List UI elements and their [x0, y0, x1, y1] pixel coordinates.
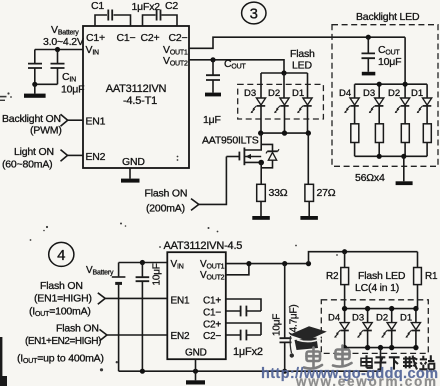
node Flash ON (200mA) [145, 188, 199, 215]
svg-text:Light ON: Light ON [14, 146, 54, 158]
capacitor CIN (two in parallel) [28, 50, 84, 96]
watermark graduation cap logo [290, 326, 327, 357]
capacitor C1 [91, 0, 131, 26]
wire VIN to U1 [35, 49, 83, 51]
circled number 4 [49, 242, 74, 266]
LED D4 (circuit 4) [328, 313, 349, 338]
resistor 560x4 (D4) [351, 124, 359, 143]
watermark bug glyphs [304, 346, 352, 369]
svg-text:(60~80mA): (60~80mA) [2, 159, 52, 171]
wire VOUT2 [189, 60, 308, 73]
svg-text:Backlight ON: Backlight ON [2, 113, 61, 125]
LED D2 [268, 88, 289, 113]
wire cathode bus [261, 132, 309, 134]
svg-text:Backlight LED: Backlight LED [356, 11, 420, 23]
wire backlight cathode bus [355, 143, 428, 157]
wire VOUT1 to backlight box [189, 37, 405, 48]
svg-text:4: 4 [57, 247, 65, 264]
wire D1 column to 27 ohm [307, 133, 309, 184]
svg-text:EN1: EN1 [171, 296, 190, 307]
svg-text:D3: D3 [244, 88, 256, 99]
node Flash ON EN2 (circuit 4) [17, 323, 107, 366]
svg-text:Flash LED: Flash LED [358, 270, 406, 282]
svg-text:3: 3 [250, 5, 258, 22]
ground under 33 ohm [252, 201, 269, 219]
wire VIN (circuit 4) [119, 262, 168, 264]
diode zener (internal) [261, 144, 279, 167]
scan specks [0, 92, 338, 371]
battery B1 [112, 263, 126, 372]
svg-text:(4.7μF): (4.7μF) [289, 304, 300, 335]
svg-text:Flash ON: Flash ON [145, 188, 188, 200]
wire cathode return to ground bus [380, 348, 382, 372]
svg-text:C2−: C2− [203, 331, 221, 342]
svg-text:D1: D1 [400, 313, 412, 324]
watermark text 电子下载站 [361, 355, 434, 369]
svg-text:www.eeworm.com: www.eeworm.com [295, 374, 436, 386]
svg-text:(PWM): (PWM) [30, 125, 62, 137]
svg-text:R1: R1 [425, 271, 438, 282]
LED D3 (circuit 4) [352, 313, 372, 338]
resistor 560x4 (D3) [375, 124, 383, 143]
resistor 33 ohm [257, 184, 288, 201]
wire EN2 [68, 154, 84, 156]
svg-text:C2+: C2+ [141, 32, 160, 44]
svg-text:C1−: C1− [117, 32, 136, 44]
svg-text:EN1: EN1 [86, 116, 106, 128]
wire cathode bus (circuit 4) [345, 331, 416, 348]
svg-text:C2+: C2+ [203, 320, 221, 331]
LED D3 [244, 88, 266, 113]
svg-text:C1+: C1+ [203, 296, 221, 307]
ground under CIN [24, 84, 46, 97]
resistor 560x4 (D2) [401, 124, 409, 143]
svg-text:-4.5-T1: -4.5-T1 [123, 95, 157, 107]
node VBattery [43, 24, 84, 48]
ground under 27 ohm [300, 201, 318, 219]
junction node VOUT2/COUT [210, 57, 215, 62]
svg-text:D4: D4 [339, 88, 351, 99]
svg-text:(EN1=HIGH): (EN1=HIGH) [34, 293, 92, 305]
node Backlight ON (PWM) [2, 113, 68, 137]
wires flash LED cathodes to bus [261, 106, 308, 133]
svg-text:LC(4 in 1): LC(4 in 1) [355, 282, 399, 294]
svg-text:D2: D2 [388, 88, 400, 99]
svg-text:D1: D1 [292, 88, 304, 99]
resistor 560x4 (D1) [423, 124, 431, 143]
LED D2 (backlight) [388, 88, 410, 113]
wire top feed to R2/R1 [309, 252, 418, 264]
op-amp U2 AAT3112IVN-4.5 IC box [164, 240, 243, 359]
circled number 3 [242, 2, 266, 24]
ground under backlight box [396, 156, 413, 185]
LED D3 (backlight) [363, 88, 384, 113]
capacitor COUT 10uF (backlight) [362, 37, 402, 72]
resistor R2 [326, 252, 349, 309]
wire EN1 [68, 119, 83, 121]
svg-text:EN2: EN2 [86, 151, 106, 163]
svg-text:EN2: EN2 [171, 331, 190, 342]
transistor Q1 AAT950ILTS (P-MOSFET) [202, 133, 264, 165]
wire backlight anode bus [355, 37, 428, 98]
dashed box flash LED (circuit 4) [321, 300, 428, 354]
junction node COUT2 [366, 35, 371, 40]
svg-text:1μF: 1μF [203, 114, 221, 126]
svg-text:C2: C2 [165, 0, 178, 12]
svg-text:(200mA): (200mA) [146, 203, 185, 215]
label Flash LED LC(4 in 1) [355, 270, 406, 294]
LED D2 (circuit 4) [376, 313, 396, 338]
svg-text:D4: D4 [328, 313, 340, 324]
wire ground bus (circuit 4) [119, 370, 381, 372]
ground under U1 GND [121, 168, 140, 183]
LED D1 [292, 88, 312, 113]
LED D1 (backlight) [411, 88, 432, 113]
svg-text:GND: GND [185, 348, 207, 359]
junction nodes on cathode bus [258, 130, 263, 135]
node Light ON [2, 146, 68, 171]
dashed box flash LED (circuit 3) [238, 84, 324, 119]
svg-text:AAT3112IVN: AAT3112IVN [106, 83, 167, 95]
wires LEDs to resistors [355, 106, 428, 124]
svg-text:10μF: 10μF [61, 84, 84, 96]
svg-text:D2: D2 [268, 88, 280, 99]
svg-text:LED: LED [292, 60, 312, 72]
svg-text:56Ωx4: 56Ωx4 [355, 172, 385, 184]
svg-text:1μFx2: 1μFx2 [233, 346, 263, 358]
wire VOUT bus (circuit 4) [226, 264, 309, 275]
svg-text:C1−: C1− [203, 308, 221, 319]
scan edge artifact left [0, 337, 2, 386]
svg-text:D1: D1 [411, 88, 423, 99]
svg-text:R2: R2 [326, 271, 339, 282]
dashed box backlight LED [332, 25, 438, 167]
svg-text:10μF: 10μF [272, 314, 283, 336]
svg-text:33Ω: 33Ω [269, 187, 288, 199]
capacitor COUT 10uF(4.7uF) (circuit 4) [272, 264, 300, 372]
junction node flash anode feed [281, 70, 286, 75]
svg-text:C1: C1 [91, 0, 104, 12]
svg-text:D2: D2 [376, 313, 388, 324]
op-amp U1 AAT3112IVN-4.5-T1 IC box [83, 26, 189, 168]
label Flash LED [290, 48, 315, 72]
wire Flash ON to Q1 gate [199, 157, 227, 205]
capacitor 10uF input (circuit 4) [136, 263, 163, 372]
svg-text:10μF: 10μF [152, 263, 163, 285]
wire EN1 (circuit 4) [105, 297, 167, 299]
LED D4 (backlight) [339, 88, 359, 113]
svg-text:C2−: C2− [169, 32, 188, 44]
svg-text:(EN1+EN2=HIGH): (EN1+EN2=HIGH) [25, 336, 101, 347]
capacitor C2 [143, 0, 179, 26]
wire anode drops flash LEDs [261, 73, 308, 98]
svg-text:D3: D3 [352, 313, 364, 324]
wire U2 GND stub [195, 359, 197, 371]
svg-text:3.0~4.2V: 3.0~4.2V [43, 36, 84, 48]
junction node on VIN wire [55, 47, 60, 52]
capacitor C2 flying (circuit 4) [226, 323, 261, 340]
svg-text:C1+: C1+ [86, 32, 105, 44]
ground under COUT [205, 93, 221, 97]
node Flash ON EN1 (circuit 4) [29, 280, 105, 318]
svg-text:Flash ON: Flash ON [56, 323, 99, 335]
svg-text:27Ω: 27Ω [317, 187, 336, 199]
resistor R1 [414, 252, 438, 309]
svg-text:AAT950ILTS: AAT950ILTS [202, 135, 259, 147]
svg-text:D3: D3 [363, 88, 375, 99]
wire Q1 source to 33 ohm [260, 163, 262, 185]
svg-text:AAT3112IVN-4.5: AAT3112IVN-4.5 [164, 240, 243, 252]
resistor 27 ohm [305, 184, 336, 201]
ground bar under COUT 10uF [362, 72, 376, 76]
svg-text:Flash ON: Flash ON [40, 280, 83, 292]
wire anode bus (circuit 4 LEDs) [345, 309, 418, 323]
svg-text:10μF: 10μF [378, 56, 401, 68]
svg-text:GND: GND [122, 156, 145, 168]
capacitor C1 flying (circuit 4) [226, 299, 261, 316]
wire EN2 (circuit 4) [107, 334, 167, 336]
LED D1 (circuit 4) [400, 313, 421, 338]
capacitor COUT 1uF [203, 58, 246, 126]
svg-text:Flash: Flash [290, 48, 315, 60]
ground under U2 [186, 371, 205, 384]
